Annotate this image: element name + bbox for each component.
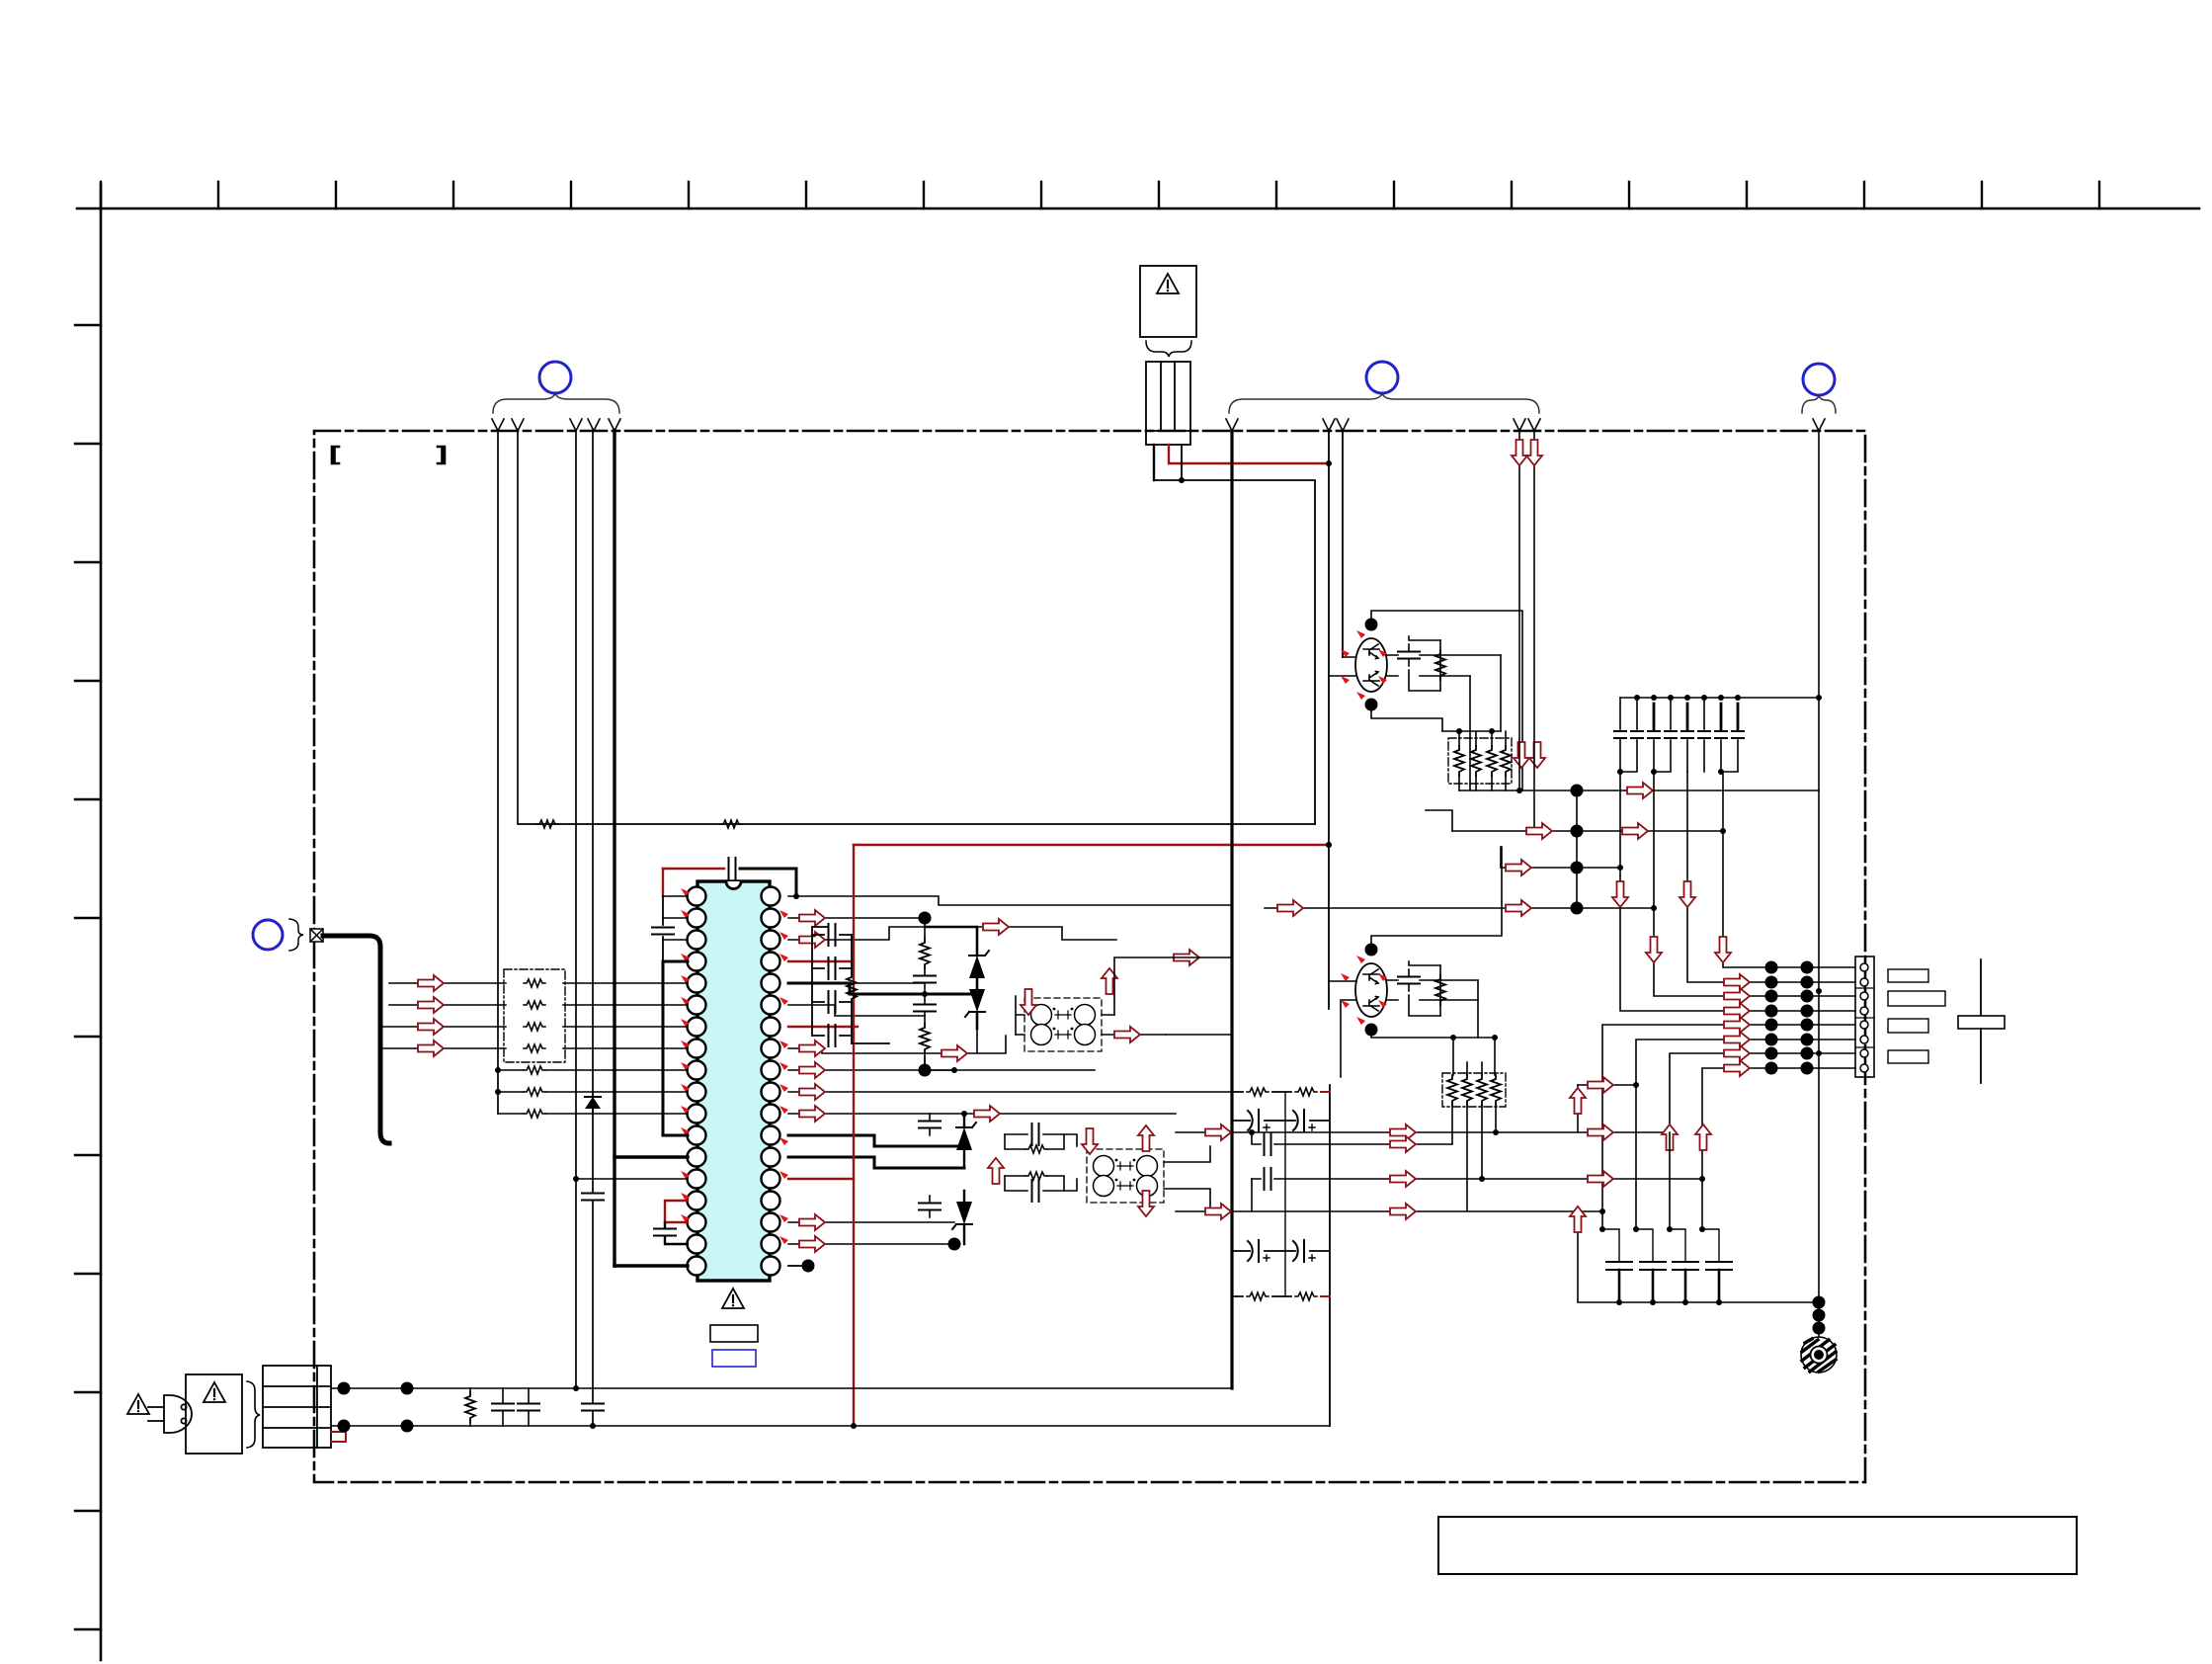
comb capacitor plates (1606, 1262, 1732, 1270)
resistor R-L9 (524, 1066, 545, 1074)
arrows beside RN2 (1514, 742, 1529, 768)
wire w3 (575, 431, 577, 1388)
brace 4 (289, 919, 303, 951)
brace 1 (493, 393, 619, 413)
Q2 top wire (1371, 847, 1502, 950)
thick wire to L13 (614, 1155, 688, 1158)
riser tails to jogs (1602, 1085, 1702, 1229)
wires from top: w6/w7 down to rows (1518, 431, 1520, 790)
ruler vertical line (100, 184, 103, 1660)
wire L4 stub thick to rail down to L12 (663, 961, 688, 1135)
RN2 top rails (1442, 731, 1506, 746)
Q1 bottom wire (1371, 705, 1442, 731)
resistor R-b on w2 run (720, 820, 742, 828)
Q1 top loop wire (1371, 611, 1522, 790)
thick wire R13 lower bridge (788, 1157, 964, 1168)
fuse/filter component F1 (1146, 362, 1190, 445)
thick wire R5 (788, 982, 850, 985)
Q2 red ticks (1356, 956, 1365, 963)
RN2 resistors (1454, 746, 1511, 776)
rail x=1359 (1342, 431, 1344, 657)
left vertical with capacitor (662, 896, 664, 961)
red wire from F1 (1169, 445, 1329, 463)
red drop to L1 (662, 869, 664, 896)
wire R1 long to rail (788, 896, 1232, 905)
thick wire R12 lower bridge (788, 1135, 964, 1146)
rung y=1193 cap (1252, 1178, 1482, 1180)
capacitor C-w4a (582, 1194, 604, 1201)
wire w5 thick (613, 431, 615, 1266)
wire from F1 down-right (1181, 445, 1183, 480)
capacitor C-L2 (652, 928, 674, 935)
comb lower stubs and pair ties (1620, 740, 1738, 772)
wire R2 with arrow (788, 917, 925, 919)
thick bridge wires upper (850, 983, 977, 994)
brace 2 (1229, 393, 1539, 413)
board outline dash-dot (314, 431, 1865, 1482)
capacitor network CN-A (upper) (812, 927, 889, 1043)
warning triangle in power box (204, 1382, 225, 1402)
resistor R-Q1 (1435, 650, 1445, 680)
resistor pack RN3 dash-dot box (1442, 1073, 1506, 1107)
ladder mid vertical (1284, 1092, 1286, 1296)
input rows to pins L5-L8 (380, 983, 688, 1048)
long vertical to chassis ground (1818, 431, 1820, 1336)
comb plates (1614, 731, 1744, 738)
wire R18 end dot (788, 1265, 802, 1267)
Q1 base stubs (1329, 657, 1355, 676)
filter resistor across rails (469, 1388, 471, 1426)
filter cap C-f2 (528, 1388, 530, 1426)
AC plug P1 (148, 1395, 192, 1433)
zener pair Z1/Z2 (925, 927, 977, 1029)
red supply horizontal to B+ rail (854, 844, 1329, 846)
transistor Q2 (1355, 963, 1387, 1017)
red supply vertical (853, 845, 855, 1426)
IC body (697, 881, 770, 1281)
arrow at zener top row (977, 927, 1116, 940)
arrows near T-A (1021, 989, 1036, 1015)
input arrows (418, 975, 444, 991)
lower caps column (929, 1114, 931, 1217)
capacitor C-top (729, 858, 736, 879)
wire L2 stub (663, 917, 688, 919)
power unit box (186, 1374, 242, 1454)
RN1 resistors (524, 979, 545, 987)
Q1 red ticks (1356, 630, 1365, 638)
RN2 bottom to row (1459, 776, 1506, 790)
ladder rails (1232, 1085, 1330, 1426)
stair 3 (1654, 772, 1855, 996)
arrows on w6/w7 below border (1512, 440, 1527, 465)
stair 1 (1723, 772, 1855, 967)
RN3 resistors (1447, 1075, 1501, 1105)
resistor R-L10 (524, 1088, 545, 1096)
brace at power box output (247, 1381, 260, 1448)
wire from F1 down-left (1153, 445, 1155, 480)
up arrows near lower comb (1577, 1085, 1579, 1132)
resistor pack RN2 dash-dot box (1448, 738, 1512, 784)
label rect black (710, 1325, 758, 1342)
T-B output wires (1164, 1146, 1210, 1206)
wire R11 with arrow (788, 1113, 1176, 1115)
rail x=1345 (B+) (1328, 431, 1330, 1009)
warning triangle under IC (722, 1289, 744, 1308)
resistor R-Q2 (1435, 975, 1445, 1005)
Q2 base stubs (1329, 981, 1355, 1077)
stair 8 (1702, 1068, 1855, 1179)
row y=800 (1459, 790, 1819, 791)
filter cap C-f1 (502, 1388, 504, 1426)
caps in CN-A (829, 924, 836, 946)
stair 4 (1620, 772, 1855, 1011)
board label brackets (332, 447, 339, 463)
stair 6 (1636, 1040, 1855, 1085)
wire entry forks on top border (492, 419, 1825, 431)
connector row dots (1765, 961, 1814, 1075)
rung y=1158 cap (1252, 1132, 1452, 1144)
Q2 bottom wire (1371, 1030, 1495, 1038)
AC rail top y=1405 (331, 1387, 1232, 1389)
wire R8 with arrow (788, 1048, 977, 1053)
row y=841 (1452, 830, 1723, 832)
red B+ junction lower (1326, 842, 1332, 848)
resistor R-L11 (524, 1110, 545, 1118)
IC pins right column (762, 887, 780, 1276)
zener bottom tail (977, 1029, 1006, 1053)
lower right: caps+res pairs to transformer T-B (1005, 1134, 1077, 1191)
Q1 emitter rungs with cap/res (1387, 655, 1501, 676)
red wire R4 (788, 960, 854, 962)
AC rail bottom y=1443 (331, 1425, 1330, 1427)
warning triangle in box (1157, 274, 1179, 293)
red wire R14 (788, 1178, 854, 1180)
wire w4 (capacitor in line) (592, 431, 594, 1426)
connector labels (1888, 969, 1928, 982)
top loop over IC with capacitor (663, 868, 724, 870)
wire R9 with arrow (788, 1069, 1095, 1071)
pin red tick marks left (681, 888, 690, 1222)
title block (1438, 1517, 2077, 1574)
comb capacitor top stubs (1620, 698, 1704, 729)
wire R10 with arrow (788, 1091, 1232, 1093)
IC pins left column (688, 887, 706, 1276)
transformer T-A (1024, 998, 1102, 1051)
row y=919 (1265, 907, 1654, 909)
wire L14 long with cap branch (576, 1178, 688, 1180)
comb jogs above (1602, 1229, 1719, 1262)
connector ref circle CN3 (1803, 364, 1835, 395)
junction dots at w3/w4 on rails (573, 1385, 579, 1391)
rung y=1146 wire across (1176, 1131, 1496, 1133)
label rect blue (712, 1350, 756, 1367)
line filter transformer LF1 (263, 1366, 331, 1448)
loop wire from F1 around right (1154, 480, 1315, 824)
transistor Q1 (1355, 638, 1387, 692)
thick input bus (323, 936, 389, 1143)
row y=878 (1501, 867, 1620, 869)
rail x=1247 (1230, 431, 1233, 1388)
junction at F1 loop (1179, 477, 1185, 483)
wire R16 with arrow (788, 1243, 954, 1245)
wire w2 + horizontal run with resistors (518, 431, 1315, 824)
wire w1 (497, 431, 499, 1114)
ruler left ticks (75, 325, 101, 1629)
junction dots on w1 (495, 1067, 501, 1073)
RN3 feeds (1453, 1038, 1495, 1075)
diode D1 between rows (585, 1092, 601, 1114)
lower feed wires y=1098/1146/1194/1226 to combs (1578, 1084, 1636, 1086)
pin red tick marks right (779, 910, 788, 1244)
wire R6 (788, 1005, 925, 1016)
wire R15 with arrow (788, 1221, 954, 1223)
battery symbol (1980, 959, 1982, 1083)
red loop L15-L16 (665, 1201, 688, 1222)
resistor network RN1 dash-dot box (504, 969, 565, 1062)
rail dots (338, 1382, 351, 1395)
capacitor column right of CN-A (924, 918, 926, 1070)
rows to pins L9-L11 with resistors (498, 1070, 688, 1114)
rung y=1105 resistor pair (1232, 1091, 1330, 1093)
warning box (1140, 266, 1196, 337)
connector ref circle CN4 (253, 920, 283, 950)
transformer T-B (1087, 1149, 1164, 1203)
rung y=1226 wire across (1176, 1210, 1602, 1212)
Q2 collector dots (1365, 944, 1378, 957)
red wire R7 (788, 1026, 858, 1028)
capacitor C-L16 branch (665, 1222, 688, 1244)
brace 3 (1802, 395, 1836, 413)
comb bottom rail to ground (1619, 1301, 1819, 1303)
capacitor C-Q1 (1398, 652, 1420, 659)
lower section: zener Z3 (963, 1114, 965, 1168)
resistor in CN-A (847, 973, 857, 1003)
comb rail dots (1634, 695, 1640, 701)
rung y=1266 electrolytics (1232, 1250, 1330, 1252)
capacitor C-w4b (582, 1404, 604, 1411)
ruler horizontal line (77, 208, 2199, 210)
wire R3 with arrow into cap net (788, 927, 925, 940)
wire L3 stub (663, 939, 688, 941)
stair 5 (1602, 1025, 1855, 1211)
rung y=1134 electrolytics (1232, 1120, 1330, 1122)
stair 2 (1687, 772, 1855, 982)
lower section: zener Z4 (963, 1191, 965, 1244)
stair 7 (1670, 1053, 1855, 1132)
capacitor C-Q2 (1398, 977, 1420, 984)
warning triangle at plug (127, 1394, 149, 1414)
wire L1 stub (663, 895, 688, 897)
ruler top ticks (101, 182, 2099, 208)
connector ref circle CN2 (1366, 362, 1398, 393)
Q1 collector dots (1365, 619, 1378, 631)
IC notch (726, 881, 741, 889)
comb rail (1620, 697, 1819, 699)
brace under warning box (1146, 341, 1191, 357)
RN3 bottoms descend (1452, 1105, 1496, 1211)
thick wire to L18 (614, 1264, 688, 1267)
connector ref circle CN1 (539, 362, 571, 393)
T-A connecting wires (1016, 1015, 1166, 1035)
comb stubs below (1619, 1270, 1719, 1302)
red stub at LF1 (331, 1432, 346, 1442)
rung y=1312 resistor pair (1232, 1295, 1330, 1297)
Q2 emitter rungs (1387, 980, 1478, 1000)
ground stack dots (1813, 1296, 1826, 1309)
junction red B+ (1326, 460, 1332, 466)
vertical x=1596 linking rows (1576, 790, 1578, 908)
chassis ground symbol (1801, 1337, 1837, 1373)
resistor R-a on w2 run (536, 820, 558, 828)
box-x terminal on border (310, 929, 323, 942)
